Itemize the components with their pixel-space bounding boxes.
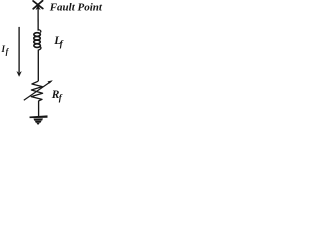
ground [30, 115, 48, 125]
fault mark X [33, 1, 43, 9]
wire from resistor down to ground [38, 101, 40, 117]
variable-resistor arrow through Rf [24, 82, 50, 100]
wire from inductor down to resistor [37, 50, 39, 82]
inductor Lf coil [34, 30, 41, 50]
wire from fault point down to inductor [37, 7, 39, 31]
resistor Rf zigzag [31, 81, 42, 101]
arrowhead pointing up at fault point [36, 5, 40, 9]
current arrow If [18, 27, 20, 73]
svg-text:Fault Point: Fault Point [49, 1, 103, 13]
